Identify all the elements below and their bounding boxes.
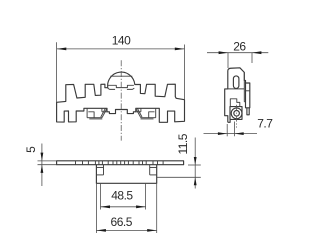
dim 140 dimension line xyxy=(57,48,185,50)
svg-text:5: 5 xyxy=(24,146,38,153)
dim 7.7 dimension line middle xyxy=(227,133,234,135)
dim 7.7 extension line left xyxy=(226,124,228,136)
side view body bottom fork xyxy=(230,99,240,107)
dim 11.5 extension line upper xyxy=(188,164,201,166)
side view pin boss inner circle xyxy=(234,111,240,117)
svg-text:7.7: 7.7 xyxy=(257,116,273,130)
side view hook strip mid line xyxy=(246,90,250,92)
dim 48.5 extension line right xyxy=(145,184,147,210)
dim 140 extension line right xyxy=(184,45,186,100)
bottom view strip xyxy=(57,161,184,165)
dim 48.5 arrow right xyxy=(136,205,146,208)
right snap hook detail xyxy=(136,108,156,119)
dim 26 dimension line right tail xyxy=(252,52,268,54)
dim 26 arrow left xyxy=(219,51,228,54)
dim 140 arrow right xyxy=(175,48,185,51)
dim 26 extension line left xyxy=(227,53,229,68)
dim 7.7 extension line right xyxy=(233,122,235,137)
dome chord line xyxy=(110,75,132,77)
svg-text:26: 26 xyxy=(233,39,246,53)
bottom view block xyxy=(96,165,156,184)
dim 26 dimension line left tail xyxy=(207,52,228,54)
dim 66.5 dimension line xyxy=(96,229,156,231)
svg-text:11.5: 11.5 xyxy=(176,133,190,154)
dim 7.7 arrow right xyxy=(234,132,243,135)
dim 11.5 dimension line xyxy=(194,138,196,189)
main front view: toothed chain plate outline xyxy=(57,72,185,122)
dim 66.5 arrow right xyxy=(147,229,157,232)
side view head body divider xyxy=(228,88,245,90)
side view small rect below strip xyxy=(247,108,249,115)
main view vertical centerline xyxy=(120,60,122,140)
under-dome internal shelf with center trough xyxy=(108,85,134,87)
dim 140 arrow left xyxy=(57,48,67,51)
dim 5 arrow bottom xyxy=(41,165,44,173)
dim 5 extension lines xyxy=(38,160,57,162)
svg-text:140: 140 xyxy=(112,34,131,48)
dim 11.5 extension line lower xyxy=(157,176,201,178)
dim 26 dimension line middle xyxy=(228,52,252,54)
side view bottom lip xyxy=(228,119,230,122)
left snap hook detail xyxy=(87,108,107,119)
under-dome hook right xyxy=(127,88,134,89)
svg-text:48.5: 48.5 xyxy=(111,189,133,203)
dim 66.5 extension line left xyxy=(95,184,97,233)
dim 7.7 arrow left xyxy=(218,132,227,135)
dim 5 arrow top xyxy=(41,153,44,161)
dim 7.7 dimension line left tail xyxy=(204,133,228,135)
dim 26 arrow right xyxy=(252,51,261,54)
side view: plate left profile and head xyxy=(225,68,246,123)
bottom view block step lines left xyxy=(96,166,103,168)
side view obround slot xyxy=(233,76,239,88)
side view head right edge xyxy=(243,72,245,101)
bottom view block step lines right xyxy=(150,166,157,168)
side view step at head right xyxy=(244,101,245,103)
side view hook strip rect xyxy=(246,83,250,108)
dim 11.5 arrow upper xyxy=(194,157,197,165)
side view pin boss outer circle xyxy=(231,108,242,119)
dim 48.5 extension line left xyxy=(100,184,102,210)
bottom view block ear left xyxy=(103,165,105,175)
bottom view strip ticks xyxy=(76,161,164,165)
dim 5 dimension line xyxy=(41,144,43,187)
dim 7.7 dimension line right tail xyxy=(234,133,257,135)
dim 26 extension line right xyxy=(251,53,253,63)
side view bottom block xyxy=(230,107,242,120)
bottom view block ear right xyxy=(149,165,151,175)
dim 48.5 arrow left xyxy=(101,205,111,208)
svg-text:66.5: 66.5 xyxy=(111,215,133,229)
dim 48.5 dimension line xyxy=(101,206,146,208)
dim 11.5 arrow lower xyxy=(194,177,197,185)
dim 66.5 arrow left xyxy=(96,229,106,232)
side view vertical centerline xyxy=(236,105,238,128)
dim 140 extension line left xyxy=(56,42,58,102)
dim 66.5 extension line right xyxy=(156,184,158,233)
under-dome hook left xyxy=(108,88,115,89)
